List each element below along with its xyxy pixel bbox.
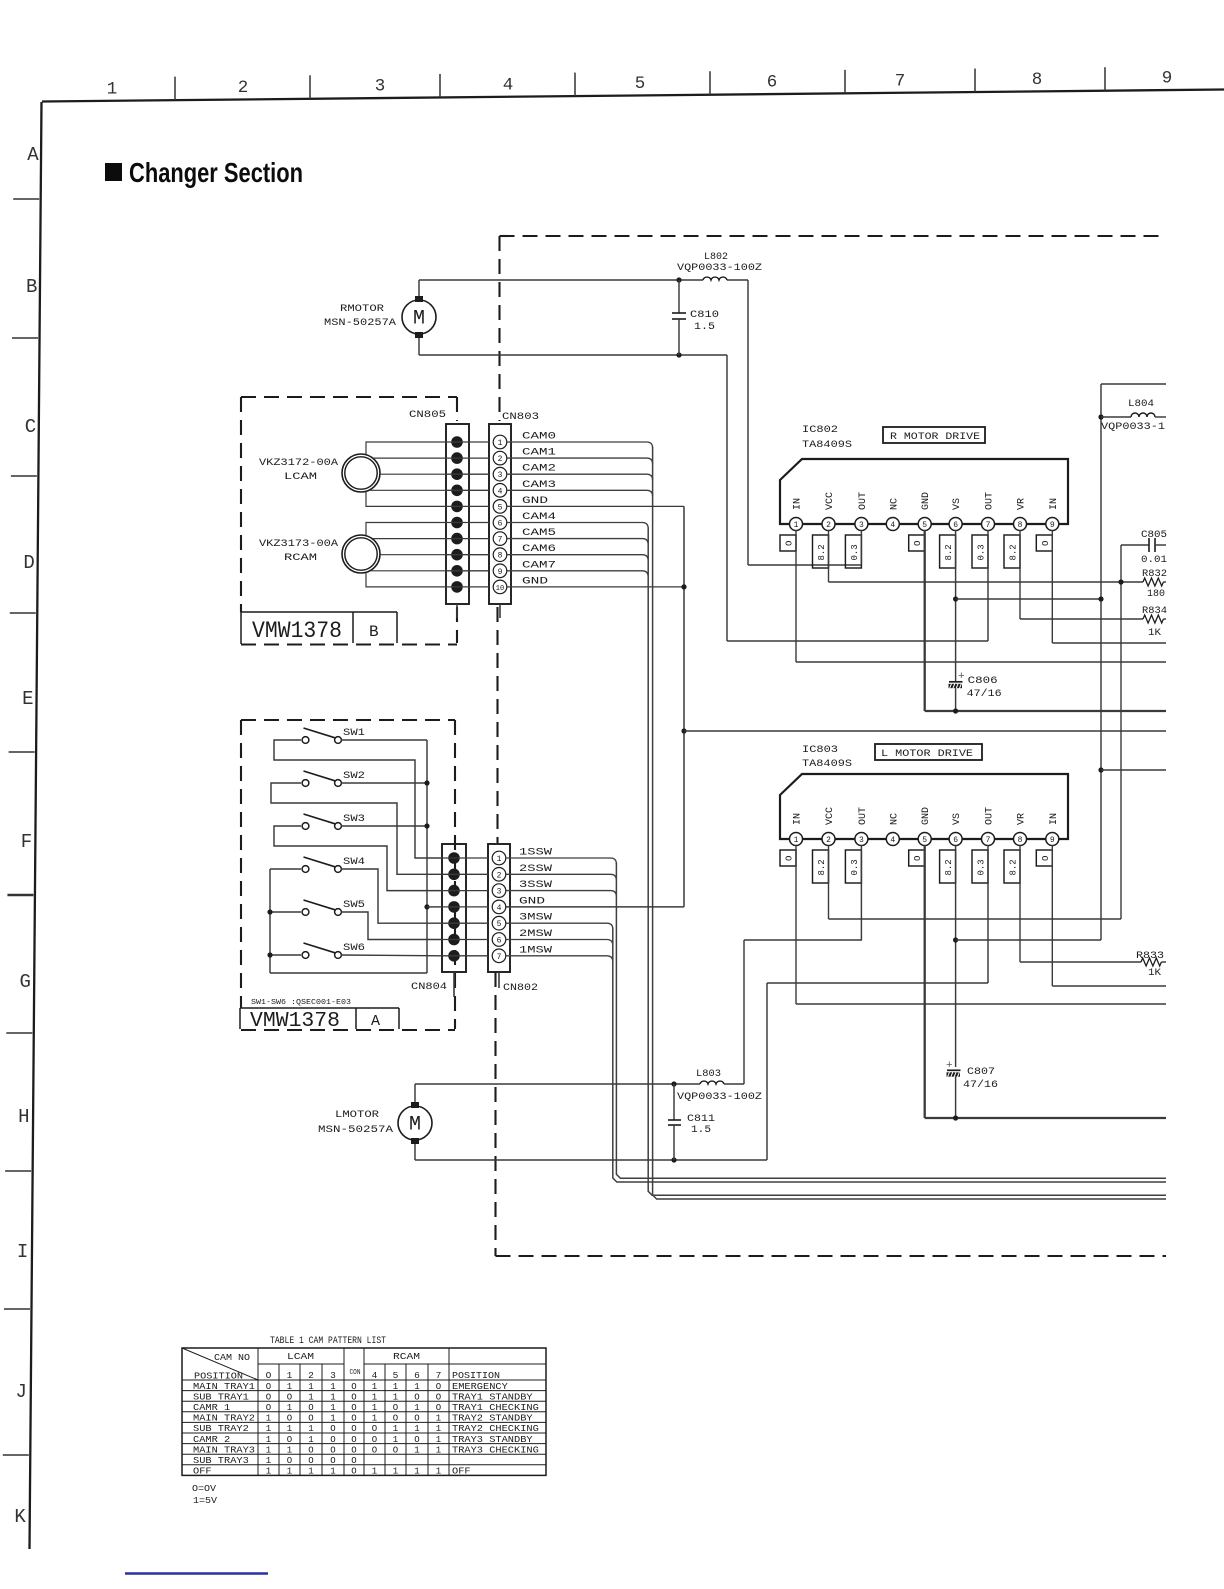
- svg-text:2: 2: [308, 1370, 314, 1381]
- svg-text:OUT: OUT: [985, 492, 996, 510]
- svg-text:CAM NO: CAM NO: [214, 1353, 250, 1363]
- svg-text:2: 2: [497, 871, 502, 880]
- svg-text:5: 5: [922, 521, 927, 530]
- svg-text:GND: GND: [921, 807, 932, 825]
- svg-text:O: O: [266, 1370, 272, 1381]
- svg-text:1: 1: [330, 1403, 335, 1413]
- svg-text:CAM3: CAM3: [522, 480, 556, 491]
- svg-text:O: O: [266, 1403, 271, 1413]
- svg-text:4: 4: [890, 521, 895, 530]
- svg-text:O: O: [436, 1403, 441, 1413]
- svg-text:6: 6: [767, 73, 778, 93]
- svg-text:9: 9: [1050, 521, 1055, 530]
- svg-text:TRAY2 CHECKING: TRAY2 CHECKING: [452, 1424, 539, 1434]
- svg-text:1: 1: [414, 1403, 419, 1413]
- svg-text:1: 1: [308, 1435, 313, 1445]
- svg-text:2: 2: [238, 78, 249, 98]
- svg-text:O: O: [287, 1435, 292, 1445]
- svg-text:180: 180: [1147, 589, 1165, 600]
- svg-text:0.3: 0.3: [850, 544, 860, 560]
- svg-text:1: 1: [393, 1382, 398, 1392]
- svg-text:M: M: [413, 308, 425, 331]
- svg-text:1K: 1K: [1148, 628, 1161, 639]
- svg-text:6: 6: [498, 520, 503, 529]
- svg-text:1: 1: [372, 1382, 377, 1392]
- svg-text:SUB TRAY3: SUB TRAY3: [193, 1456, 249, 1466]
- svg-text:CAM7: CAM7: [522, 560, 556, 571]
- svg-text:GND: GND: [519, 896, 545, 907]
- svg-text:2: 2: [498, 455, 503, 464]
- svg-text:8.2: 8.2: [817, 544, 827, 560]
- svg-text:8: 8: [1032, 70, 1043, 90]
- svg-text:1: 1: [372, 1414, 377, 1424]
- svg-text:IN: IN: [1049, 498, 1060, 510]
- svg-text:9: 9: [498, 568, 503, 577]
- svg-text:3: 3: [330, 1370, 336, 1381]
- svg-text:1SSW: 1SSW: [519, 848, 552, 859]
- svg-text:VS: VS: [952, 498, 963, 510]
- svg-text:1: 1: [414, 1424, 419, 1434]
- svg-text:O: O: [913, 856, 923, 861]
- svg-text:1: 1: [287, 1403, 292, 1413]
- svg-text:7: 7: [436, 1370, 442, 1381]
- svg-text:3: 3: [375, 77, 386, 97]
- svg-text:O: O: [351, 1392, 356, 1402]
- svg-text:R832: R832: [1142, 569, 1167, 580]
- svg-text:2: 2: [826, 521, 831, 530]
- svg-text:L804: L804: [1128, 399, 1154, 410]
- svg-text:1: 1: [393, 1435, 398, 1445]
- svg-text:SW1: SW1: [343, 728, 365, 739]
- svg-text:CAMR 2: CAMR 2: [193, 1435, 230, 1445]
- svg-text:VR: VR: [1017, 813, 1028, 825]
- svg-text:SW4: SW4: [343, 857, 365, 868]
- svg-text:A: A: [27, 144, 39, 166]
- svg-text:C807: C807: [967, 1067, 995, 1078]
- svg-text:F: F: [21, 831, 32, 853]
- svg-text:4: 4: [497, 904, 502, 913]
- svg-text:1: 1: [287, 1382, 292, 1392]
- svg-text:E: E: [22, 688, 33, 710]
- svg-text:MSN-50257A: MSN-50257A: [318, 1125, 393, 1136]
- svg-text:8: 8: [498, 552, 503, 561]
- svg-text:OFF: OFF: [193, 1467, 212, 1477]
- svg-text:6: 6: [497, 937, 502, 946]
- svg-text:SUB TRAY2: SUB TRAY2: [193, 1424, 249, 1434]
- svg-text:1: 1: [330, 1467, 335, 1477]
- svg-text:8: 8: [1018, 836, 1023, 845]
- svg-text:OUT: OUT: [858, 492, 869, 510]
- svg-text:O: O: [308, 1414, 313, 1424]
- svg-text:CAMR 1: CAMR 1: [193, 1403, 230, 1413]
- svg-text:0.01: 0.01: [1141, 555, 1167, 566]
- svg-text:O: O: [266, 1392, 271, 1402]
- svg-text:MSN-50257A: MSN-50257A: [324, 318, 396, 329]
- svg-text:5: 5: [922, 836, 927, 845]
- svg-text:1: 1: [266, 1435, 271, 1445]
- svg-text:L802: L802: [704, 252, 728, 263]
- svg-text:O: O: [330, 1424, 335, 1434]
- svg-text:B: B: [369, 623, 379, 641]
- svg-text:O: O: [913, 541, 923, 546]
- svg-text:A: A: [371, 1013, 380, 1030]
- svg-text:TRAY3 STANDBY: TRAY3 STANDBY: [452, 1435, 533, 1445]
- svg-text:2MSW: 2MSW: [519, 929, 552, 940]
- svg-text:1: 1: [266, 1414, 271, 1424]
- svg-text:O: O: [414, 1414, 419, 1424]
- svg-text:Changer Section: Changer Section: [129, 157, 303, 188]
- svg-text:LMOTOR: LMOTOR: [335, 1110, 379, 1121]
- svg-text:O: O: [330, 1456, 335, 1466]
- svg-text:47/16: 47/16: [967, 688, 1002, 700]
- svg-text:8.2: 8.2: [944, 859, 954, 875]
- svg-text:CN804: CN804: [411, 981, 447, 993]
- svg-text:1: 1: [393, 1467, 398, 1477]
- svg-text:IN: IN: [793, 813, 804, 825]
- svg-text:OUT: OUT: [858, 807, 869, 825]
- svg-text:O: O: [351, 1403, 356, 1413]
- svg-text:O: O: [308, 1456, 313, 1466]
- svg-text:J: J: [16, 1381, 27, 1403]
- svg-text:8.2: 8.2: [1009, 544, 1019, 560]
- svg-text:O: O: [436, 1392, 441, 1402]
- svg-text:GND: GND: [522, 496, 548, 507]
- svg-text:TRAY3 CHECKING: TRAY3 CHECKING: [452, 1445, 539, 1455]
- svg-text:O: O: [351, 1435, 356, 1445]
- svg-text:10: 10: [496, 585, 504, 593]
- svg-text:2: 2: [826, 836, 831, 845]
- svg-text:3: 3: [859, 521, 864, 530]
- svg-text:6: 6: [414, 1370, 420, 1381]
- svg-text:0.3: 0.3: [850, 859, 860, 875]
- svg-text:1: 1: [436, 1435, 441, 1445]
- svg-text:VQP0033-1: VQP0033-1: [1101, 422, 1165, 433]
- svg-text:SW6: SW6: [343, 943, 365, 954]
- svg-text:RMOTOR: RMOTOR: [340, 304, 384, 315]
- svg-text:2SSW: 2SSW: [519, 864, 552, 875]
- svg-text:O: O: [372, 1435, 377, 1445]
- svg-text:1MSW: 1MSW: [519, 945, 552, 956]
- svg-text:RCAM: RCAM: [284, 553, 317, 564]
- svg-text:3: 3: [497, 888, 502, 897]
- svg-text:1: 1: [436, 1424, 441, 1434]
- svg-text:1: 1: [330, 1382, 335, 1392]
- svg-text:K: K: [14, 1506, 26, 1528]
- svg-text:OFF: OFF: [452, 1467, 471, 1477]
- svg-text:7: 7: [498, 536, 503, 545]
- svg-text:47/16: 47/16: [963, 1079, 998, 1091]
- svg-text:5: 5: [635, 74, 646, 94]
- svg-text:O: O: [308, 1403, 313, 1413]
- svg-text:1: 1: [436, 1467, 441, 1477]
- svg-text:NC: NC: [889, 813, 900, 825]
- svg-text:6: 6: [953, 521, 958, 530]
- svg-text:1K: 1K: [1148, 968, 1161, 979]
- svg-text:CN805: CN805: [409, 409, 446, 421]
- svg-text:6: 6: [953, 836, 958, 845]
- svg-text:O: O: [785, 856, 795, 861]
- svg-text:VCC: VCC: [825, 492, 836, 510]
- svg-text:IN: IN: [1049, 813, 1060, 825]
- svg-text:1: 1: [393, 1392, 398, 1402]
- svg-text:CON: CON: [350, 1369, 361, 1377]
- svg-text:L MOTOR DRIVE: L MOTOR DRIVE: [881, 749, 973, 760]
- svg-text:O: O: [372, 1445, 377, 1455]
- svg-text:1: 1: [414, 1382, 419, 1392]
- svg-text:CAM0: CAM0: [522, 432, 556, 443]
- svg-text:TRAY1 STANDBY: TRAY1 STANDBY: [452, 1392, 533, 1402]
- svg-text:O: O: [266, 1382, 271, 1392]
- svg-text:1: 1: [436, 1445, 441, 1455]
- svg-text:7: 7: [895, 71, 906, 91]
- svg-text:4: 4: [498, 487, 503, 496]
- svg-text:1: 1: [330, 1414, 335, 1424]
- svg-text:1: 1: [266, 1424, 271, 1434]
- svg-text:O: O: [1041, 856, 1051, 861]
- svg-text:IC802: IC802: [802, 424, 838, 436]
- svg-text:TRAY2 STANDBY: TRAY2 STANDBY: [452, 1414, 533, 1424]
- svg-text:TA8409S: TA8409S: [802, 439, 852, 451]
- svg-text:9: 9: [1050, 836, 1055, 845]
- svg-text:C810: C810: [690, 310, 719, 321]
- svg-text:GND: GND: [921, 492, 932, 510]
- svg-text:VQP0033-100Z: VQP0033-100Z: [677, 1092, 762, 1103]
- svg-text:O: O: [287, 1414, 292, 1424]
- svg-text:O: O: [330, 1435, 335, 1445]
- svg-text:G: G: [19, 971, 30, 993]
- svg-text:1: 1: [498, 439, 503, 448]
- svg-text:LCAM: LCAM: [287, 1351, 314, 1362]
- svg-text:MAIN TRAY3: MAIN TRAY3: [193, 1445, 255, 1455]
- svg-text:SW3: SW3: [343, 814, 365, 825]
- svg-text:1: 1: [287, 1467, 292, 1477]
- svg-text:CAM2: CAM2: [522, 464, 556, 475]
- svg-text:LCAM: LCAM: [284, 472, 317, 483]
- svg-text:8.2: 8.2: [944, 544, 954, 560]
- svg-text:CAM5: CAM5: [522, 528, 556, 539]
- svg-text:7: 7: [986, 521, 991, 530]
- svg-text:POSITION: POSITION: [194, 1372, 243, 1382]
- svg-text:3SSW: 3SSW: [519, 880, 552, 891]
- svg-text:SW1-SW6 :QSEC001-E03: SW1-SW6 :QSEC001-E03: [251, 999, 351, 1007]
- svg-text:1: 1: [414, 1467, 419, 1477]
- svg-text:9: 9: [1162, 69, 1173, 89]
- svg-text:O: O: [308, 1445, 313, 1455]
- svg-text:1: 1: [497, 855, 502, 864]
- svg-text:1: 1: [308, 1392, 313, 1402]
- svg-text:M: M: [409, 1114, 421, 1137]
- svg-text:8.2: 8.2: [817, 859, 827, 875]
- svg-text:MAIN TRAY2: MAIN TRAY2: [193, 1414, 255, 1424]
- svg-text:MAIN TRAY1: MAIN TRAY1: [193, 1382, 255, 1392]
- svg-text:1: 1: [372, 1392, 377, 1402]
- svg-text:CAM4: CAM4: [522, 512, 556, 523]
- svg-text:TA8409S: TA8409S: [802, 758, 852, 770]
- svg-text:8.2: 8.2: [1009, 859, 1019, 875]
- svg-text:C805: C805: [1141, 530, 1167, 541]
- svg-text:C: C: [25, 416, 36, 438]
- svg-text:B: B: [26, 276, 37, 298]
- svg-text:1: 1: [287, 1424, 292, 1434]
- svg-text:R MOTOR DRIVE: R MOTOR DRIVE: [890, 432, 980, 443]
- svg-text:1: 1: [308, 1467, 313, 1477]
- svg-text:1: 1: [266, 1456, 271, 1466]
- svg-text:4: 4: [890, 836, 895, 845]
- svg-text:O: O: [393, 1445, 398, 1455]
- svg-text:7: 7: [986, 836, 991, 845]
- svg-text:1: 1: [414, 1445, 419, 1455]
- svg-text:SW5: SW5: [343, 900, 365, 911]
- svg-text:O: O: [785, 541, 795, 546]
- svg-text:1: 1: [794, 836, 799, 845]
- svg-text:1: 1: [393, 1424, 398, 1434]
- svg-text:O: O: [330, 1445, 335, 1455]
- svg-text:RCAM: RCAM: [393, 1351, 420, 1362]
- svg-text:1: 1: [330, 1392, 335, 1402]
- svg-text:TRAY1 CHECKING: TRAY1 CHECKING: [452, 1403, 539, 1413]
- svg-text:1: 1: [372, 1467, 377, 1477]
- svg-text:O: O: [351, 1445, 356, 1455]
- svg-text:0.3: 0.3: [977, 859, 987, 875]
- svg-text:SW2: SW2: [343, 771, 365, 782]
- svg-text:H: H: [18, 1106, 29, 1128]
- svg-text:D: D: [23, 552, 34, 574]
- svg-text:8: 8: [1018, 521, 1023, 530]
- svg-text:R833: R833: [1136, 951, 1164, 962]
- svg-text:VCC: VCC: [825, 807, 836, 825]
- svg-text:1: 1: [266, 1467, 271, 1477]
- svg-text:VQP0033-100Z: VQP0033-100Z: [677, 263, 762, 274]
- svg-text:O: O: [287, 1392, 292, 1402]
- svg-text:5: 5: [393, 1370, 399, 1381]
- svg-text:O: O: [351, 1382, 356, 1392]
- svg-text:7: 7: [497, 953, 502, 962]
- svg-text:VKZ3172-00A: VKZ3172-00A: [259, 458, 338, 469]
- svg-text:3: 3: [859, 836, 864, 845]
- svg-text:O: O: [414, 1392, 419, 1402]
- svg-text:1.5: 1.5: [691, 1125, 711, 1136]
- svg-text:O: O: [351, 1414, 356, 1424]
- svg-text:L803: L803: [696, 1069, 721, 1080]
- svg-text:CAM1: CAM1: [522, 448, 556, 459]
- svg-text:CN803: CN803: [502, 411, 539, 423]
- svg-text:POSITION: POSITION: [452, 1371, 500, 1381]
- svg-text:O: O: [393, 1403, 398, 1413]
- svg-text:1=5V: 1=5V: [193, 1495, 217, 1506]
- svg-text:O: O: [393, 1414, 398, 1424]
- svg-text:O: O: [351, 1456, 356, 1466]
- svg-text:5: 5: [498, 503, 503, 512]
- svg-text:O: O: [372, 1424, 377, 1434]
- svg-text:R834: R834: [1142, 606, 1167, 617]
- svg-text:1: 1: [436, 1414, 441, 1424]
- svg-text:CN802: CN802: [503, 982, 538, 994]
- svg-text:4: 4: [372, 1370, 378, 1381]
- svg-text:VMW1378: VMW1378: [252, 618, 342, 644]
- svg-text:O=OV: O=OV: [192, 1483, 216, 1494]
- svg-text:VS: VS: [952, 813, 963, 825]
- svg-text:NC: NC: [889, 498, 900, 510]
- svg-text:1.5: 1.5: [694, 322, 715, 333]
- svg-text:I: I: [17, 1241, 28, 1263]
- svg-text:5: 5: [497, 920, 502, 929]
- svg-text:3MSW: 3MSW: [519, 913, 552, 924]
- svg-text:VR: VR: [1017, 498, 1028, 510]
- svg-text:OUT: OUT: [985, 807, 996, 825]
- svg-text:C806: C806: [968, 676, 998, 687]
- svg-text:C811: C811: [687, 1114, 715, 1125]
- svg-text:O: O: [351, 1467, 356, 1477]
- svg-text:TABLE 1 CAM PATTERN LIST: TABLE 1 CAM PATTERN LIST: [270, 1336, 386, 1347]
- svg-text:VKZ3173-00A: VKZ3173-00A: [259, 539, 338, 550]
- svg-text:EMERGENCY: EMERGENCY: [452, 1382, 508, 1392]
- svg-text:O: O: [351, 1424, 356, 1434]
- svg-text:4: 4: [503, 75, 514, 95]
- svg-text:1: 1: [308, 1382, 313, 1392]
- svg-text:IC803: IC803: [802, 744, 838, 756]
- svg-text:O: O: [1041, 541, 1051, 546]
- svg-text:0.3: 0.3: [977, 544, 987, 560]
- svg-text:IN: IN: [793, 498, 804, 510]
- svg-text:1: 1: [308, 1424, 313, 1434]
- svg-text:3: 3: [498, 471, 503, 480]
- svg-text:1: 1: [266, 1445, 271, 1455]
- svg-text:CAM6: CAM6: [522, 544, 556, 555]
- svg-text:1: 1: [287, 1445, 292, 1455]
- svg-text:O: O: [436, 1382, 441, 1392]
- svg-text:1: 1: [287, 1370, 293, 1381]
- svg-text:O: O: [287, 1456, 292, 1466]
- svg-text:GND: GND: [522, 576, 548, 587]
- svg-text:1: 1: [372, 1403, 377, 1413]
- svg-text:VMW1378: VMW1378: [250, 1010, 340, 1033]
- svg-text:1: 1: [794, 521, 799, 530]
- svg-text:1: 1: [107, 79, 118, 99]
- svg-text:O: O: [414, 1435, 419, 1445]
- svg-text:SUB TRAY1: SUB TRAY1: [193, 1392, 249, 1402]
